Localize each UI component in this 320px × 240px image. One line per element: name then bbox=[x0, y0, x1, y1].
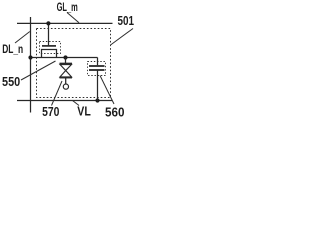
terminal circle bbox=[63, 84, 68, 89]
svg-text:550: 550 bbox=[2, 74, 20, 89]
transistor T 550 channel bbox=[42, 50, 57, 58]
diode pair 570 top triangle (points down) bbox=[60, 65, 72, 71]
leader VL bbox=[73, 101, 80, 106]
transistor T 550 dashed enclosure bbox=[40, 42, 61, 54]
leader 501 bbox=[111, 29, 134, 46]
capacitor 560 bottom lead bbox=[97, 70, 99, 101]
wire gate lead bbox=[48, 23, 50, 46]
capacitor 560 top plate bbox=[89, 65, 105, 67]
capacitor 560 bottom plate bbox=[89, 69, 105, 71]
svg-text:DL_n: DL_n bbox=[2, 42, 23, 56]
leader 560 bbox=[100, 76, 114, 105]
junction dot diode branch bbox=[63, 55, 67, 59]
diode pair 570 bottom bar bbox=[60, 77, 73, 79]
wire source-drain row bbox=[31, 57, 98, 59]
svg-text:501: 501 bbox=[118, 13, 135, 28]
wire VL bottom horizontal bbox=[17, 100, 113, 102]
diode pair 570 lead from wire bbox=[65, 58, 67, 64]
junction dot capacitor on VL bbox=[95, 98, 99, 102]
dashed box 501 bbox=[37, 29, 111, 98]
wire data line DL_n vertical bbox=[30, 17, 32, 113]
wire gate line GL_m horizontal bbox=[17, 22, 113, 24]
leader DL_n bbox=[15, 32, 30, 44]
diode pair 570 top bar bbox=[60, 63, 73, 65]
diode pair 570 bottom triangle (points up) bbox=[60, 71, 72, 77]
junction dot source on DL bbox=[28, 55, 32, 59]
leader GL_m bbox=[67, 13, 79, 23]
diode pair 570 lead to terminal bbox=[65, 78, 67, 84]
capacitor 560 top lead bbox=[97, 58, 99, 66]
svg-text:VL: VL bbox=[77, 104, 91, 119]
svg-text:GL_m: GL_m bbox=[57, 0, 78, 14]
leader 570 bbox=[52, 81, 63, 106]
svg-text:570: 570 bbox=[42, 104, 59, 119]
capacitor 560 dashed enclosure bbox=[88, 62, 106, 76]
transistor T 550 gate bar bbox=[42, 45, 56, 47]
svg-text:560: 560 bbox=[105, 104, 125, 119]
leader 550 bbox=[21, 61, 56, 80]
junction dot gate on GL bbox=[46, 21, 50, 25]
